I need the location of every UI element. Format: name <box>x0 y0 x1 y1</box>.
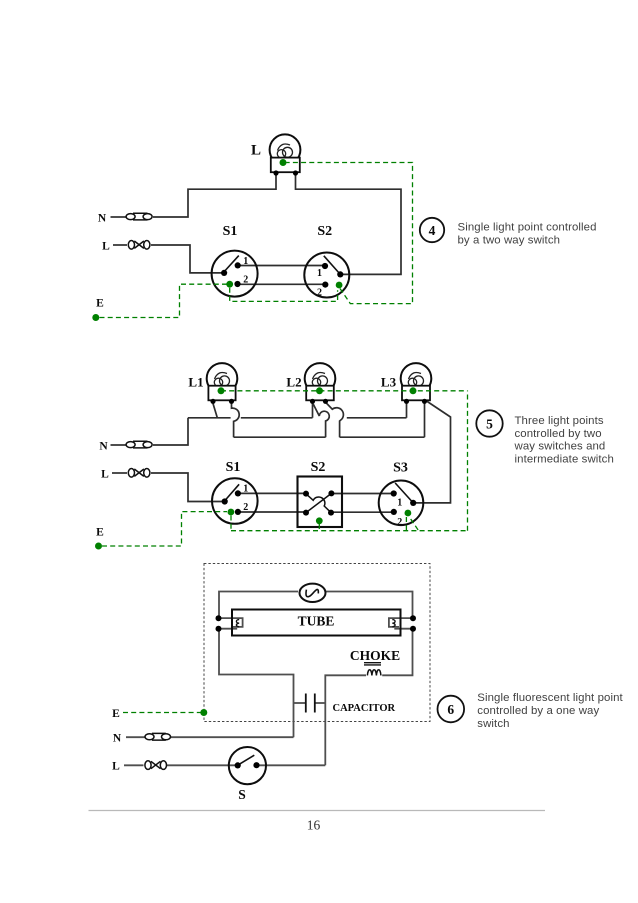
svg-text:E: E <box>96 298 104 310</box>
svg-text:4: 4 <box>429 223 436 238</box>
svg-text:Three light points: Three light points <box>515 415 604 427</box>
svg-text:L: L <box>102 240 110 252</box>
svg-text:controlled by a one way: controlled by a one way <box>477 705 599 717</box>
svg-text:S1: S1 <box>223 224 238 239</box>
svg-text:E: E <box>112 708 120 720</box>
svg-text:1: 1 <box>243 256 248 267</box>
svg-text:L: L <box>101 468 109 480</box>
svg-text:Single light point controlled: Single light point controlled <box>458 221 597 233</box>
svg-text:2: 2 <box>317 287 322 298</box>
svg-text:E: E <box>96 527 104 539</box>
svg-text:S3: S3 <box>393 461 408 476</box>
svg-text:2: 2 <box>243 274 248 285</box>
svg-text:L2: L2 <box>286 374 301 389</box>
svg-text:N: N <box>113 733 122 745</box>
svg-text:S1: S1 <box>226 460 241 475</box>
svg-text:2: 2 <box>243 502 248 513</box>
svg-text:16: 16 <box>307 818 321 833</box>
svg-text:L: L <box>112 761 120 773</box>
svg-text:way switches and: way switches and <box>514 441 606 453</box>
svg-text:N: N <box>98 212 107 224</box>
svg-text:intermediate switch: intermediate switch <box>515 453 614 465</box>
svg-text:controlled by two: controlled by two <box>515 428 602 440</box>
svg-text:6: 6 <box>447 702 454 717</box>
svg-text:1: 1 <box>397 498 402 509</box>
svg-text:CAPACITOR: CAPACITOR <box>333 703 396 714</box>
svg-text:TUBE: TUBE <box>298 613 335 628</box>
svg-text:L3: L3 <box>381 374 397 389</box>
svg-text:S2: S2 <box>317 224 332 239</box>
svg-text:5: 5 <box>486 416 493 431</box>
svg-text:S: S <box>238 787 246 802</box>
svg-text:CHOKE: CHOKE <box>350 648 400 663</box>
svg-text:by a two way switch: by a two way switch <box>458 235 561 247</box>
svg-text:1: 1 <box>317 268 322 279</box>
svg-text:L: L <box>251 143 261 159</box>
svg-text:switch: switch <box>477 718 509 730</box>
svg-text:1: 1 <box>243 483 248 494</box>
svg-text:L1: L1 <box>188 374 203 389</box>
svg-text:2: 2 <box>397 517 402 528</box>
svg-text:N: N <box>99 440 108 452</box>
svg-text:S2: S2 <box>311 460 326 475</box>
svg-text:Single fluorescent light point: Single fluorescent light point <box>477 692 623 704</box>
